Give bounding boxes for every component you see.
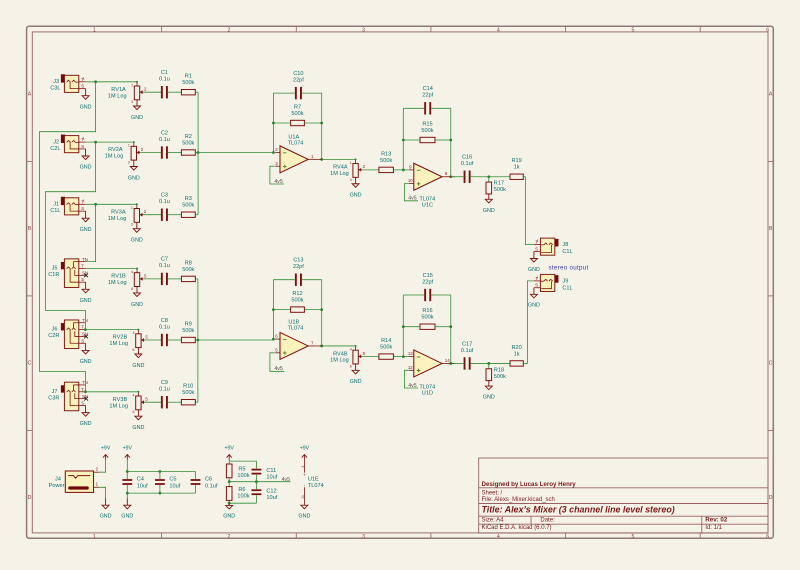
svg-text:R9: R9 xyxy=(185,321,192,327)
svg-text:Designed by Lucas Leroy Henry: Designed by Lucas Leroy Henry xyxy=(482,481,577,488)
svg-text:3: 3 xyxy=(350,178,352,182)
wire xyxy=(168,278,182,280)
svg-text:GND: GND xyxy=(223,514,235,520)
svg-text:Title: Alex’s Mixer (3 channel: Title: Alex’s Mixer (3 channel line leve… xyxy=(482,505,675,515)
wire xyxy=(402,108,404,170)
svg-text:RV4A: RV4A xyxy=(333,165,348,171)
svg-text:10uf: 10uf xyxy=(169,483,180,489)
svg-text:R3: R3 xyxy=(185,196,192,202)
svg-text:R14: R14 xyxy=(381,338,391,344)
capacitor C10 22pf xyxy=(295,87,297,99)
ground (J4) xyxy=(100,498,112,519)
wire xyxy=(523,177,534,245)
svg-text:S: S xyxy=(81,144,84,149)
wire xyxy=(488,177,490,182)
svg-text:6: 6 xyxy=(350,364,352,368)
junction xyxy=(449,175,452,178)
svg-text:0.1uf: 0.1uf xyxy=(205,483,218,489)
svg-text:B: B xyxy=(28,226,32,232)
wire xyxy=(273,122,290,124)
wire xyxy=(198,152,275,154)
svg-text:GND: GND xyxy=(80,359,92,365)
svg-text:TN: TN xyxy=(82,380,88,385)
svg-text:S: S xyxy=(81,84,84,89)
capacitor C3 0.1u xyxy=(161,209,163,221)
svg-text:C6: C6 xyxy=(205,477,212,483)
wire xyxy=(168,339,182,341)
junction xyxy=(159,470,162,473)
svg-text:1: 1 xyxy=(537,276,539,280)
svg-text:C1R: C1R xyxy=(48,272,59,278)
op-amp U1D TL074 xyxy=(408,350,456,377)
svg-text:C10: C10 xyxy=(293,71,303,77)
svg-text:RV2B: RV2B xyxy=(113,335,128,341)
svg-text:0.1uf: 0.1uf xyxy=(461,161,474,167)
junction xyxy=(94,203,97,206)
junction xyxy=(402,139,405,142)
connector J8 output jack xyxy=(534,238,573,255)
wire xyxy=(489,362,510,364)
wire xyxy=(403,107,424,109)
svg-text:R19: R19 xyxy=(511,158,521,164)
wire xyxy=(168,214,182,216)
svg-text:C1L: C1L xyxy=(562,249,572,255)
svg-text:D: D xyxy=(28,495,32,501)
svg-text:C2: C2 xyxy=(161,130,168,136)
wire xyxy=(403,294,424,296)
svg-text:C2L: C2L xyxy=(50,146,60,152)
svg-text:R6: R6 xyxy=(238,487,245,493)
junction xyxy=(126,470,129,473)
svg-text:3: 3 xyxy=(362,27,365,33)
resistor R7 500k xyxy=(291,120,305,125)
svg-text:1M Log: 1M Log xyxy=(105,154,124,160)
wire xyxy=(229,481,290,483)
title block xyxy=(479,458,768,533)
svg-text:C16: C16 xyxy=(462,155,472,161)
wire xyxy=(489,176,510,178)
ground under R18 xyxy=(483,381,495,401)
svg-text:100k: 100k xyxy=(237,473,249,479)
svg-text:C1L: C1L xyxy=(562,285,572,291)
svg-text:GND: GND xyxy=(131,238,143,244)
wire xyxy=(159,485,161,493)
junction xyxy=(272,151,275,154)
svg-text:3: 3 xyxy=(128,161,130,165)
svg-text:S: S xyxy=(81,206,84,211)
svg-text:J6: J6 xyxy=(52,327,58,333)
svg-text:TL074: TL074 xyxy=(308,483,324,489)
power +9V (divider) xyxy=(225,445,235,459)
svg-text:T: T xyxy=(81,387,84,392)
svg-text:RV1A: RV1A xyxy=(111,87,126,93)
wire xyxy=(86,203,137,205)
svg-text:GND: GND xyxy=(80,165,92,171)
connector J5 audio jack xyxy=(48,257,88,288)
junction xyxy=(228,502,231,505)
svg-text:4: 4 xyxy=(131,270,133,274)
svg-text:500k: 500k xyxy=(182,390,194,396)
svg-text:T: T xyxy=(81,264,84,269)
wire xyxy=(228,478,230,487)
svg-text:GND: GND xyxy=(528,267,540,273)
junction xyxy=(272,122,275,125)
svg-text:C3: C3 xyxy=(161,193,168,199)
svg-text:4v5: 4v5 xyxy=(274,179,282,185)
svg-text:GND: GND xyxy=(298,514,310,520)
svg-text:J9: J9 xyxy=(562,278,568,284)
wire xyxy=(435,326,451,328)
svg-text:T: T xyxy=(81,325,84,330)
svg-text:1: 1 xyxy=(83,76,85,80)
ground J1 sleeve xyxy=(80,211,92,233)
svg-text:22pf: 22pf xyxy=(422,93,433,99)
svg-text:1M Log: 1M Log xyxy=(330,358,349,364)
svg-text:1: 1 xyxy=(93,534,96,540)
svg-text:R13: R13 xyxy=(381,151,391,157)
wire xyxy=(404,184,418,201)
svg-text:R16: R16 xyxy=(422,308,432,314)
potentiometer RV1A xyxy=(131,81,147,121)
svg-text:10uf: 10uf xyxy=(137,483,148,489)
wire xyxy=(197,279,199,402)
node 4v5 xyxy=(408,196,416,202)
wire xyxy=(403,326,420,328)
junction xyxy=(449,362,452,365)
wire xyxy=(168,401,182,403)
junction xyxy=(487,175,490,178)
svg-text:0.1u: 0.1u xyxy=(159,324,170,330)
junction xyxy=(402,355,405,358)
svg-text:+: + xyxy=(303,473,306,478)
svg-text:GND: GND xyxy=(80,421,92,427)
wire xyxy=(197,92,199,215)
svg-text:1M Log: 1M Log xyxy=(330,171,349,177)
wire xyxy=(302,279,322,281)
svg-text:C3R: C3R xyxy=(48,395,59,401)
svg-text:6: 6 xyxy=(766,27,769,33)
svg-text:R5: R5 xyxy=(238,467,245,473)
svg-text:RV4B: RV4B xyxy=(333,351,348,357)
capacitor C4 10uf xyxy=(122,477,148,490)
svg-text:1M Log: 1M Log xyxy=(108,93,127,99)
svg-text:GND: GND xyxy=(483,208,495,214)
svg-text:6: 6 xyxy=(133,348,135,352)
svg-text:J1: J1 xyxy=(53,202,59,208)
svg-text:Sheet: /: Sheet: / xyxy=(482,491,503,497)
svg-text:10uf: 10uf xyxy=(266,495,277,501)
junction xyxy=(402,169,405,172)
svg-text:C7: C7 xyxy=(161,257,168,263)
svg-text:GND: GND xyxy=(350,193,362,199)
wire xyxy=(86,81,137,83)
svg-text:1: 1 xyxy=(128,144,130,148)
svg-text:1: 1 xyxy=(131,83,133,87)
wire xyxy=(195,152,198,154)
power +9V (filter rail) xyxy=(123,445,133,459)
svg-text:GND: GND xyxy=(132,363,144,369)
svg-text:Id: 1/1: Id: 1/1 xyxy=(705,525,722,531)
ground J5 sleeve xyxy=(80,282,92,304)
wire xyxy=(255,482,257,490)
svg-text:500k: 500k xyxy=(182,267,194,273)
svg-text:GND: GND xyxy=(132,425,144,431)
svg-text:10: 10 xyxy=(408,178,413,183)
resistor R2 500k xyxy=(181,150,195,155)
junction xyxy=(84,390,87,393)
svg-text:GND: GND xyxy=(80,104,92,110)
wire xyxy=(228,500,230,503)
svg-text:B: B xyxy=(769,226,773,232)
connector J1 audio jack xyxy=(50,197,85,215)
wire xyxy=(404,370,418,388)
svg-text:500k: 500k xyxy=(291,298,303,304)
svg-text:R8: R8 xyxy=(185,260,192,266)
svg-text:R10: R10 xyxy=(183,384,193,390)
svg-text:KiCad E.D.A. kicad (6.0.7): KiCad E.D.A. kicad (6.0.7) xyxy=(482,525,552,531)
svg-text:TN: TN xyxy=(82,318,88,323)
wire xyxy=(229,461,256,468)
svg-text:500k: 500k xyxy=(182,328,194,334)
capacitor C15 22pf xyxy=(424,289,426,301)
svg-text:C1L: C1L xyxy=(50,208,60,214)
resistor R8 500k xyxy=(181,276,195,281)
svg-text:3: 3 xyxy=(131,100,133,104)
node 4v5 xyxy=(408,383,416,389)
wire xyxy=(195,472,197,480)
svg-text:0.1uf: 0.1uf xyxy=(461,348,474,354)
connector J6 audio jack xyxy=(48,318,88,349)
potentiometer RV1B xyxy=(131,268,147,308)
svg-text:File: Alexs_Mixer.kicad_sch: File: Alexs_Mixer.kicad_sch xyxy=(482,497,555,503)
svg-text:22pf: 22pf xyxy=(293,77,304,83)
wire xyxy=(362,356,379,358)
junction xyxy=(272,308,275,311)
junction xyxy=(320,158,323,161)
svg-text:C3L: C3L xyxy=(50,86,60,92)
svg-text:R12: R12 xyxy=(292,291,302,297)
wire xyxy=(195,214,198,216)
wire xyxy=(86,329,139,331)
svg-text:S: S xyxy=(81,400,84,405)
svg-text:TN: TN xyxy=(82,257,88,262)
svg-text:1k: 1k xyxy=(514,351,520,357)
op-amp U1C TL074 xyxy=(408,163,456,190)
wire xyxy=(431,294,451,296)
svg-text:stereo output: stereo output xyxy=(548,264,588,271)
ground J8 sleeve xyxy=(528,251,540,273)
svg-text:500k: 500k xyxy=(380,345,392,351)
svg-text:22pf: 22pf xyxy=(422,279,433,285)
svg-text:GND: GND xyxy=(131,302,143,308)
svg-text:J2: J2 xyxy=(53,139,59,145)
capacitor C16 0.1uf xyxy=(464,171,466,183)
svg-text:GND: GND xyxy=(100,514,112,520)
junction xyxy=(402,325,405,328)
svg-text:22pf: 22pf xyxy=(293,264,304,270)
ground J2 sleeve xyxy=(80,149,92,171)
svg-text:5: 5 xyxy=(631,534,634,540)
potentiometer RV4A xyxy=(350,158,366,198)
capacitor C6 0.1uf xyxy=(191,472,218,494)
svg-text:0.1u: 0.1u xyxy=(159,137,170,143)
wire xyxy=(140,152,161,154)
resistor R9 500k xyxy=(181,337,195,342)
junction xyxy=(94,141,97,144)
wire xyxy=(272,93,274,152)
junction xyxy=(320,345,323,348)
connector J2 audio jack xyxy=(50,135,85,153)
svg-text:4v5: 4v5 xyxy=(274,366,282,372)
wire xyxy=(255,495,257,503)
svg-text:A: A xyxy=(28,91,32,97)
junction xyxy=(449,325,452,328)
svg-text:1: 1 xyxy=(537,239,539,243)
wire xyxy=(195,339,198,341)
svg-text:GND: GND xyxy=(80,298,92,304)
svg-text:11: 11 xyxy=(301,495,305,499)
wire xyxy=(195,278,198,280)
wire xyxy=(229,502,256,504)
svg-text:4: 4 xyxy=(497,534,500,540)
svg-text:500k: 500k xyxy=(494,374,506,380)
svg-text:500k: 500k xyxy=(291,111,303,117)
svg-text:GND: GND xyxy=(80,227,92,233)
svg-text:4: 4 xyxy=(497,27,500,33)
svg-text:500k: 500k xyxy=(421,128,433,134)
svg-text:1: 1 xyxy=(350,161,352,165)
wire xyxy=(255,475,257,482)
svg-text:U1D: U1D xyxy=(422,391,433,397)
wire xyxy=(451,362,464,364)
svg-text:6: 6 xyxy=(133,410,135,414)
op-amp U1B TL074 xyxy=(275,332,322,359)
wire xyxy=(145,339,162,341)
svg-text:C: C xyxy=(28,360,32,366)
svg-text:12: 12 xyxy=(408,365,413,370)
connector J9 output jack xyxy=(534,274,573,291)
ground (U1E) xyxy=(298,505,310,520)
wire xyxy=(145,401,162,403)
capacitor C12 10uf xyxy=(252,482,278,504)
wire xyxy=(273,279,294,281)
svg-text:GND: GND xyxy=(528,302,540,308)
wire xyxy=(471,176,489,178)
svg-text:U1A: U1A xyxy=(288,134,299,140)
svg-text:6: 6 xyxy=(131,287,133,291)
wire xyxy=(273,309,290,311)
svg-text:S: S xyxy=(535,283,538,288)
wire xyxy=(40,82,96,392)
wire xyxy=(402,295,404,357)
svg-text:RV3B: RV3B xyxy=(113,397,128,403)
node 4v5 xyxy=(274,366,282,372)
svg-text:4v5: 4v5 xyxy=(408,383,416,389)
ground under R17 xyxy=(483,194,495,214)
wire xyxy=(86,391,139,393)
resistor R15 500k xyxy=(420,137,435,142)
ground J9 sleeve xyxy=(528,288,540,309)
svg-text:RV1B: RV1B xyxy=(111,274,126,280)
wire xyxy=(362,169,379,171)
connector J7 audio jack xyxy=(48,380,88,411)
wire xyxy=(195,91,198,93)
wire xyxy=(270,353,284,372)
wire xyxy=(99,460,106,472)
wire xyxy=(302,92,322,94)
capacitor C2 0.1u xyxy=(161,146,163,158)
wire xyxy=(159,472,161,480)
wire xyxy=(168,91,182,93)
resistor R10 500k xyxy=(181,400,195,405)
junction xyxy=(197,151,200,154)
junction xyxy=(197,339,200,342)
svg-text:4: 4 xyxy=(133,331,135,335)
junction xyxy=(272,338,275,341)
resistor R3 500k xyxy=(181,212,195,217)
svg-text:C12: C12 xyxy=(266,488,276,494)
wire xyxy=(431,107,451,109)
capacitor C14 22pf xyxy=(424,102,426,114)
svg-text:GND: GND xyxy=(121,514,133,520)
svg-text:+9V: +9V xyxy=(101,445,111,451)
wire xyxy=(195,401,198,403)
capacitor C17 0.1uf xyxy=(464,357,466,369)
svg-text:4: 4 xyxy=(133,393,135,397)
ground (divider) xyxy=(223,503,235,519)
ground J7 sleeve xyxy=(80,406,92,428)
wire xyxy=(523,281,534,364)
svg-text:RV3A: RV3A xyxy=(111,209,126,215)
svg-text:1: 1 xyxy=(83,199,85,203)
svg-text:C15: C15 xyxy=(423,273,433,279)
svg-text:0.1u: 0.1u xyxy=(159,387,170,393)
potentiometer RV2A xyxy=(128,141,144,181)
svg-text:0.1u: 0.1u xyxy=(159,77,170,83)
svg-text:C17: C17 xyxy=(462,341,472,347)
capacitor C5 10uf xyxy=(155,472,181,494)
svg-text:1M Log: 1M Log xyxy=(108,216,127,222)
svg-text:C: C xyxy=(769,360,773,366)
wire xyxy=(86,268,137,270)
wire xyxy=(321,93,323,159)
wire xyxy=(127,492,195,494)
node 4v5 xyxy=(274,179,282,185)
svg-text:C14: C14 xyxy=(423,86,433,92)
svg-text:100k: 100k xyxy=(237,494,249,500)
svg-text:R1: R1 xyxy=(185,74,192,80)
svg-text:+9V: +9V xyxy=(300,445,310,451)
svg-text:3: 3 xyxy=(362,534,365,540)
svg-text:C9: C9 xyxy=(161,380,168,386)
potentiometer RV3B xyxy=(132,391,148,431)
junction xyxy=(320,122,323,125)
junction xyxy=(84,328,87,331)
svg-text:R18: R18 xyxy=(494,367,504,373)
potentiometer RV2B xyxy=(132,329,148,369)
svg-text:GND: GND xyxy=(128,175,140,181)
svg-text:4: 4 xyxy=(350,348,352,352)
svg-text:14: 14 xyxy=(445,358,450,363)
wire xyxy=(393,356,409,358)
wire xyxy=(393,169,409,171)
svg-text:S: S xyxy=(81,277,84,282)
svg-text:10uf: 10uf xyxy=(266,474,277,480)
svg-text:3: 3 xyxy=(131,223,133,227)
svg-text:500k: 500k xyxy=(182,80,194,86)
svg-text:0.1u: 0.1u xyxy=(159,263,170,269)
svg-text:C4: C4 xyxy=(137,477,144,483)
